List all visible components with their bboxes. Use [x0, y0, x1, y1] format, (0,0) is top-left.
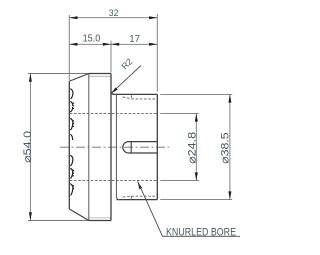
cylinder end face — [156, 94, 158, 199]
svg-text:KNURLED BORE: KNURLED BORE — [166, 226, 236, 238]
KNURLED BORE leader arrow — [138, 181, 143, 189]
dimension 15.0: right arrow at middle — [103, 43, 111, 46]
dimension Ø38.5: extension line bottom — [160, 199, 232, 201]
flange left face — [68, 81, 70, 209]
flange top chamfer — [69, 74, 89, 82]
flange right face — [110, 74, 112, 221]
dimension Ø24.8: extension line top — [160, 112, 199, 114]
dimension Ø24.8: bottom arrow — [195, 172, 198, 180]
svg-text:17: 17 — [129, 34, 140, 45]
flange bottom edge + Ø54 extension line — [28, 220, 111, 222]
dimension Ø38.5: extension line top — [160, 93, 232, 95]
KNURLED BORE leader line — [138, 181, 240, 236]
svg-text:⌀38.5: ⌀38.5 — [219, 132, 231, 164]
dimension Ø54.0: dimension line — [29, 74, 31, 221]
R2 leader arrow — [111, 87, 117, 93]
cylinder top edge with fillet — [111, 92, 157, 95]
knurl root faint line top — [89, 75, 111, 77]
svg-text:⌀24.8: ⌀24.8 — [187, 132, 199, 164]
dimension Ø38.5: dimension line — [229, 94, 231, 199]
dimension 32: right arrow — [149, 16, 157, 19]
svg-text:15.0: 15.0 — [83, 34, 101, 45]
dimension 32: dimension line — [69, 17, 157, 19]
hidden cup inner dia top — [130, 95, 132, 99]
R2 leader line — [111, 66, 141, 94]
dimension 32: extension line left — [68, 15, 70, 80]
slot rounded end arc — [123, 142, 129, 153]
slot top line — [129, 141, 158, 143]
cylinder bottom edge with fillet — [116, 199, 157, 201]
hidden cup inner dia bottom — [130, 196, 132, 199]
dimension Ø38.5: top arrow — [228, 94, 231, 102]
knurl root faint line bottom — [89, 217, 111, 219]
fillet tangent line — [116, 94, 119, 199]
slot bottom line — [129, 152, 158, 154]
dimension Ø38.5: bottom arrow — [228, 191, 231, 199]
center line (main axis) — [60, 146, 169, 148]
dimension 15.0/17: dimension line — [69, 43, 157, 45]
extension line middle (flange right face) — [110, 41, 112, 73]
flange bottom chamfer — [69, 209, 89, 221]
hidden bore line bottom — [70, 180, 157, 182]
dimension 32: left arrow — [69, 16, 77, 19]
dimension Ø54.0: top arrow — [29, 74, 32, 82]
flange chamfer tangent line — [88, 74, 90, 221]
slot inner floor edge — [130, 142, 132, 153]
svg-text:⌀54.0: ⌀54.0 — [22, 131, 34, 163]
dimension Ø24.8: extension line bottom — [160, 180, 199, 182]
hidden bore line top — [70, 112, 157, 114]
dimension Ø24.8: dimension line — [195, 113, 197, 180]
dimension Ø24.8: top arrow — [195, 113, 198, 121]
svg-text:32: 32 — [109, 8, 119, 18]
dimension 17: right arrow — [149, 43, 157, 46]
flange top edge + Ø54 extension line — [28, 73, 111, 75]
dimension Ø54.0: bottom arrow — [29, 212, 32, 220]
knurl marks on flange left face — [70, 89, 74, 196]
dimension 32: extension line right — [156, 14, 158, 92]
dimension 17: left arrow at middle — [111, 43, 119, 46]
dimension 15.0: left arrow — [69, 43, 77, 46]
